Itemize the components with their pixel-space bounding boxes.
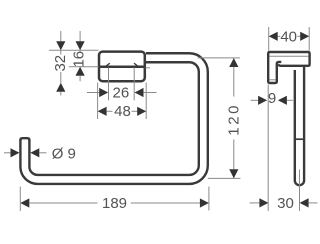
divider tick right xyxy=(134,63,138,66)
block divider line xyxy=(100,66,145,69)
svg-text:30: 30 xyxy=(277,195,294,212)
side view hook inner cap line xyxy=(269,79,275,81)
dimension 9 (side view) xyxy=(251,90,293,107)
extension line at divider level right of block xyxy=(146,67,151,69)
extension line 189 right xyxy=(208,187,210,211)
extension line 30 right (bar centerline) xyxy=(299,170,301,212)
extension line 189 left xyxy=(19,187,21,212)
svg-text:9: 9 xyxy=(268,90,276,107)
dimension 48 xyxy=(98,103,147,120)
side view bar joint crossbar xyxy=(296,138,303,140)
svg-text:40: 40 xyxy=(280,28,297,45)
extension line 120 bottom xyxy=(208,177,241,179)
dimension 32 xyxy=(52,31,69,96)
svg-text:32: 32 xyxy=(52,55,69,72)
svg-text:48: 48 xyxy=(114,103,131,120)
divider tick left xyxy=(106,63,110,66)
extension line 48 left xyxy=(97,83,99,120)
extension line 30 left (wall line) xyxy=(267,85,269,211)
dimension diameter 9 xyxy=(4,146,76,163)
dimension 40 xyxy=(269,27,310,51)
side view bar tube bottom cap xyxy=(295,181,304,186)
extension line at divider level left of block xyxy=(69,66,99,68)
wall-mount block (front view) xyxy=(99,52,145,82)
extension line 48 right xyxy=(145,83,147,120)
side view inner top line xyxy=(270,55,309,57)
dimension 16 xyxy=(70,31,87,81)
dimension 189 xyxy=(20,195,209,212)
extension line 26 left xyxy=(108,68,110,101)
towel ring tube inner contour (front view) xyxy=(29,62,198,175)
svg-text:16: 16 xyxy=(70,51,87,68)
extension line 26 right xyxy=(133,68,135,101)
side view holder outline xyxy=(268,52,309,83)
dimension 30 xyxy=(250,195,318,212)
svg-text:26: 26 xyxy=(113,85,130,102)
side view bar tube right edge xyxy=(303,67,305,181)
extension line top of block (for 32/16) xyxy=(49,49,99,51)
svg-text:120: 120 xyxy=(225,103,242,136)
dimension 120 xyxy=(225,58,242,178)
side view bar tube left edge xyxy=(294,70,296,181)
extension line 120 top xyxy=(198,57,240,59)
svg-text:Ø 9: Ø 9 xyxy=(52,146,76,163)
towel ring tube outer contour (front view) xyxy=(20,53,207,184)
tube open end cap (front view stub top) xyxy=(20,138,29,141)
dimension 26 xyxy=(87,85,157,102)
svg-text:189: 189 xyxy=(102,195,127,212)
